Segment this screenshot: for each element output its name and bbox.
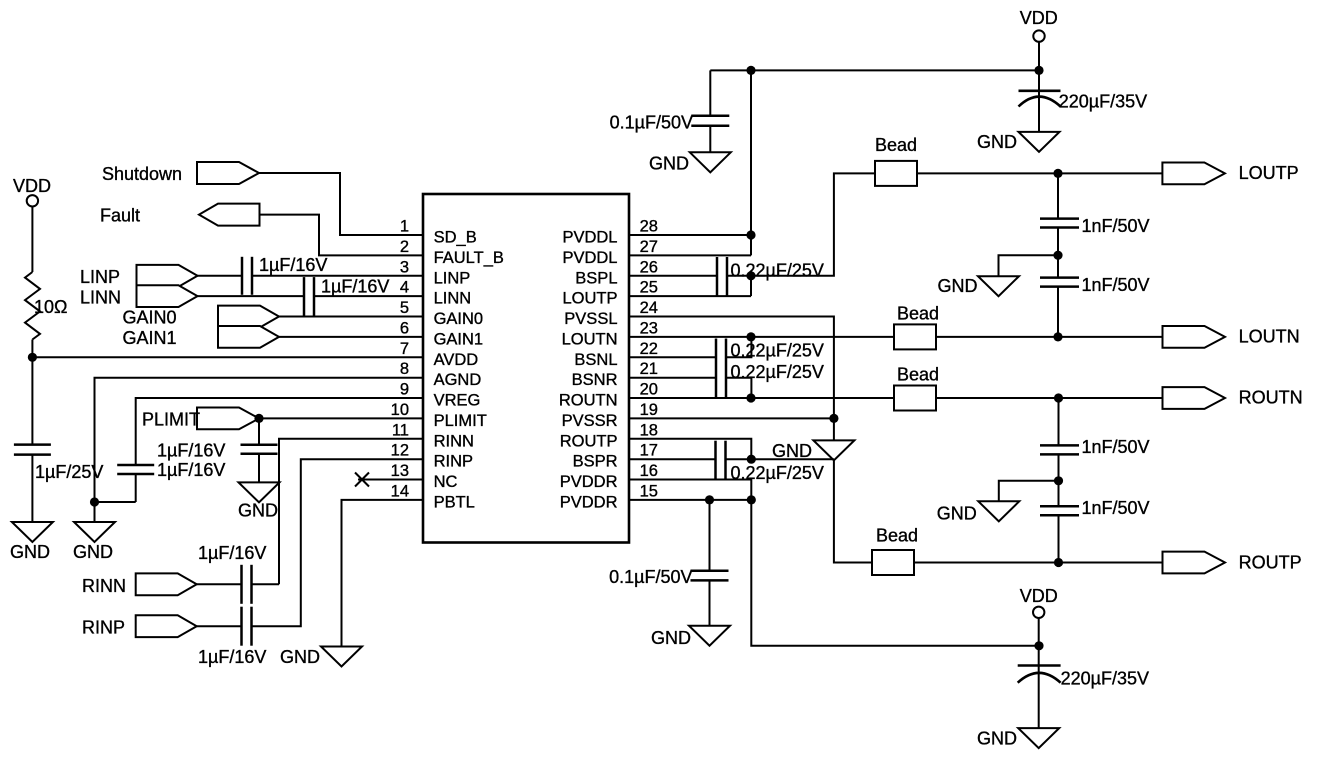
wire pin15 node to C17 bbox=[709, 500, 711, 571]
wire PLIMIT node to C5 bbox=[258, 418, 260, 444]
svg-text:19: 19 bbox=[640, 401, 658, 419]
wire FB3 to ROUTN connector bbox=[936, 397, 1163, 399]
junction PLIMIT node bbox=[254, 414, 263, 423]
svg-text:ROUTN: ROUTN bbox=[559, 392, 618, 410]
wire pin 22 BSNL to C11 bbox=[629, 356, 716, 358]
wire pin 25 LOUTP bbox=[629, 295, 751, 297]
ground below C18 bbox=[1018, 728, 1059, 748]
svg-text:GND: GND bbox=[280, 647, 320, 667]
capacitor C1 1uF/25V bbox=[14, 445, 51, 455]
svg-text:1nF/50V: 1nF/50V bbox=[1082, 498, 1150, 518]
svg-text:1µF/16V: 1µF/16V bbox=[198, 647, 266, 667]
junction ROUTN / C16 bbox=[1054, 393, 1063, 402]
wire top VDD rail bbox=[710, 69, 1039, 71]
connector LINN input bbox=[137, 285, 198, 307]
ground below C1 bbox=[12, 522, 53, 542]
wire PVSS node to ground bbox=[833, 418, 835, 440]
wire C1 to ground bbox=[31, 455, 33, 522]
connector RINP input bbox=[136, 615, 197, 637]
svg-text:PVSSL: PVSSL bbox=[564, 310, 617, 328]
ground PVSS bbox=[813, 440, 854, 460]
svg-text:27: 27 bbox=[640, 238, 658, 256]
svg-text:ROUTP: ROUTP bbox=[1239, 553, 1302, 573]
junction LOUTN / BSNL bbox=[746, 332, 755, 341]
wire pin 12 RINP bbox=[252, 459, 424, 626]
wire C17 to ground bbox=[709, 580, 711, 625]
capacitor C8 0.1uF/50V bbox=[691, 116, 729, 126]
junction top rail / VDD bbox=[1034, 66, 1043, 75]
svg-text:GAIN0: GAIN0 bbox=[434, 310, 484, 328]
svg-text:LINN: LINN bbox=[434, 290, 472, 308]
wire C5 to ground bbox=[258, 454, 260, 483]
svg-text:FAULT_B: FAULT_B bbox=[434, 249, 504, 267]
wire pin 9 VREG to C4 bbox=[136, 398, 423, 465]
connector RINN input bbox=[136, 573, 197, 595]
svg-text:1µF/16V: 1µF/16V bbox=[321, 277, 389, 297]
capacitor C3 1uF/16V bbox=[304, 277, 314, 316]
wire pin 23 LOUTN to FB2 bbox=[629, 336, 894, 338]
wire C4 to AGND node bbox=[135, 474, 137, 502]
wire C16 to R mid node bbox=[1058, 454, 1060, 480]
svg-text:GND: GND bbox=[10, 542, 50, 562]
wire LINN to C3 bbox=[198, 295, 305, 297]
wire FB2 to LOUTN connector bbox=[936, 336, 1163, 338]
svg-text:LINP: LINP bbox=[80, 267, 120, 287]
ferrite bead FB3 bbox=[894, 386, 936, 411]
ground L mid bbox=[978, 276, 1019, 296]
wire AVDD node to pin 7 bbox=[32, 356, 423, 358]
svg-text:1nF/50V: 1nF/50V bbox=[1082, 275, 1150, 295]
capacitor C13 0.22uF/25V bbox=[716, 441, 726, 480]
svg-text:BSNR: BSNR bbox=[572, 371, 618, 389]
wire pin 11 RINN bbox=[279, 439, 423, 585]
wire C6 to RINN vertical bbox=[252, 583, 280, 585]
svg-text:LINN: LINN bbox=[80, 288, 121, 308]
ground below C8 bbox=[690, 152, 731, 172]
wire pin 24 PVSSL to ground node bbox=[629, 317, 834, 419]
svg-text:LOUTP: LOUTP bbox=[562, 290, 617, 308]
junction ROUTN / BSNR bbox=[746, 393, 755, 402]
wire C15 to LOUTN line bbox=[1057, 287, 1059, 337]
svg-text:AVDD: AVDD bbox=[434, 351, 479, 369]
svg-text:PVSSR: PVSSR bbox=[562, 412, 618, 430]
svg-text:15: 15 bbox=[640, 482, 658, 500]
junction PVSS ground node bbox=[829, 414, 838, 423]
ground below AGND bbox=[74, 522, 115, 542]
junction pin 28 bbox=[746, 230, 755, 239]
connector GAIN0 input bbox=[218, 306, 279, 328]
svg-text:PVDDR: PVDDR bbox=[560, 473, 618, 491]
svg-text:20: 20 bbox=[640, 381, 658, 399]
capacitor C15 1nF/50V bbox=[1040, 278, 1079, 287]
svg-text:GND: GND bbox=[937, 504, 977, 524]
ferrite bead FB4 bbox=[872, 550, 914, 575]
wire GAIN0 to pin 5 bbox=[279, 316, 423, 318]
connector GAIN1 input bbox=[218, 326, 279, 348]
junction top rail / pin28 branch bbox=[746, 66, 755, 75]
svg-text:PLIMIT: PLIMIT bbox=[142, 410, 200, 430]
svg-text:Bead: Bead bbox=[897, 365, 939, 385]
node VDD (top-right) bbox=[1033, 30, 1044, 41]
wire pin 20 ROUTN to FB3 bbox=[629, 397, 894, 399]
wire BSPL node to LOUTP output line bbox=[751, 173, 875, 275]
connector LINP input bbox=[137, 265, 198, 287]
svg-text:PVDDR: PVDDR bbox=[560, 493, 618, 511]
capacitor C18 220uF/35V polarized bbox=[1018, 666, 1061, 683]
svg-text:8: 8 bbox=[400, 360, 409, 378]
wire Fault to pin 2 bbox=[260, 215, 424, 256]
wire C14 to mid node bbox=[1057, 228, 1059, 256]
junction AGND node bbox=[90, 497, 99, 506]
connector ROUTP output bbox=[1163, 552, 1226, 574]
wire top rail to C8 bbox=[709, 70, 711, 115]
wire L mid node to ground bbox=[999, 255, 1059, 276]
wire C3 to pin 4 bbox=[314, 295, 423, 297]
wire RINP to C7 bbox=[197, 625, 242, 627]
svg-text:3: 3 bbox=[400, 258, 409, 276]
capacitor C6 1uF/16V bbox=[242, 565, 252, 604]
wire LOUTP to C14 bbox=[1057, 173, 1059, 218]
svg-text:28: 28 bbox=[640, 218, 658, 236]
svg-text:24: 24 bbox=[640, 299, 658, 317]
connector Shutdown input bbox=[197, 162, 259, 184]
svg-text:GND: GND bbox=[73, 542, 113, 562]
svg-text:220µF/35V: 220µF/35V bbox=[1059, 92, 1147, 112]
svg-text:1: 1 bbox=[400, 218, 409, 236]
wire resistor to C1 bbox=[31, 340, 33, 445]
svg-text:RINP: RINP bbox=[82, 618, 125, 638]
svg-text:GND: GND bbox=[238, 501, 278, 521]
svg-text:1nF/50V: 1nF/50V bbox=[1082, 216, 1150, 236]
svg-text:12: 12 bbox=[391, 442, 409, 460]
capacitor C19 1nF/50V bbox=[1040, 506, 1079, 515]
capacitor C2 1uF/16V bbox=[242, 257, 252, 295]
svg-text:Fault: Fault bbox=[100, 206, 140, 226]
wire VDD to C18 bbox=[1038, 618, 1040, 728]
wire C8 to ground bbox=[709, 126, 711, 153]
svg-text:23: 23 bbox=[640, 319, 658, 337]
svg-text:2: 2 bbox=[400, 238, 409, 256]
wire pin 17 BSPR to C13 bbox=[629, 458, 716, 460]
ground R mid bbox=[978, 501, 1019, 521]
svg-text:VDD: VDD bbox=[13, 176, 51, 196]
wire pin 21 BSNR to C12 bbox=[629, 377, 716, 379]
svg-text:BSNL: BSNL bbox=[574, 351, 617, 369]
junction BSPL node bbox=[746, 271, 755, 280]
junction LOUTP / C14 bbox=[1053, 169, 1062, 178]
svg-text:GND: GND bbox=[651, 628, 691, 648]
capacitor C4 1uF/16V bbox=[117, 465, 154, 474]
wire C2 to pin 3 bbox=[252, 275, 423, 277]
wire pin 19 PVSSR to ground node bbox=[629, 417, 834, 419]
svg-text:13: 13 bbox=[391, 462, 409, 480]
svg-text:6: 6 bbox=[400, 319, 409, 337]
capacitor C16 1nF/50V bbox=[1040, 445, 1079, 454]
svg-text:Bead: Bead bbox=[875, 135, 917, 155]
IC U1 body bbox=[423, 194, 629, 543]
ferrite bead FB2 bbox=[894, 324, 936, 349]
wire ROUTN to C16 bbox=[1058, 398, 1060, 445]
wire R mid node to C19 bbox=[1058, 481, 1060, 506]
wire AGND node to C4 bbox=[95, 501, 136, 503]
svg-text:5: 5 bbox=[400, 299, 409, 317]
svg-text:PVDDL: PVDDL bbox=[562, 249, 617, 267]
junction ROUTP / C19 bbox=[1054, 558, 1063, 567]
svg-text:LOUTP: LOUTP bbox=[1239, 163, 1299, 183]
wire pin 14 PBTL to ground bbox=[342, 500, 424, 647]
svg-text:VREG: VREG bbox=[434, 392, 481, 410]
wire C19 to ROUTP line bbox=[1058, 515, 1060, 562]
wire RINN to C6 bbox=[197, 583, 242, 585]
capacitor C17 0.1uF/50V bbox=[691, 571, 729, 581]
svg-text:RINP: RINP bbox=[434, 453, 473, 471]
no-connect X on pin 13 bbox=[355, 473, 369, 487]
wire AGND node to ground bbox=[94, 502, 96, 522]
junction bottom VDD rail bbox=[1034, 641, 1043, 650]
capacitor C5 1uF/16V bbox=[241, 445, 278, 454]
svg-text:RINN: RINN bbox=[82, 576, 126, 596]
capacitor C7 1uF/16V bbox=[242, 607, 252, 646]
junction pin 15 / C17 bbox=[705, 495, 714, 504]
ferrite bead FB1 bbox=[875, 161, 917, 186]
svg-text:1µF/16V: 1µF/16V bbox=[157, 441, 225, 461]
wire FB4 to ROUTP connector bbox=[914, 562, 1163, 564]
svg-text:1µF/16V: 1µF/16V bbox=[198, 543, 266, 563]
ground below C5 bbox=[239, 482, 280, 502]
wire FB1 to LOUTP connector bbox=[917, 172, 1162, 174]
svg-text:220µF/35V: 220µF/35V bbox=[1061, 669, 1149, 689]
wire VDD branch to pins 28/27 bbox=[750, 70, 752, 255]
wire L mid node to C15 bbox=[1057, 255, 1059, 277]
svg-text:1µF/16V: 1µF/16V bbox=[157, 460, 225, 480]
junction BSPR node bbox=[747, 455, 756, 464]
svg-text:BSPL: BSPL bbox=[575, 269, 617, 287]
svg-text:11: 11 bbox=[392, 421, 409, 439]
svg-text:0.1µF/50V: 0.1µF/50V bbox=[609, 567, 692, 587]
svg-text:GND: GND bbox=[938, 276, 978, 296]
svg-text:4: 4 bbox=[400, 279, 409, 297]
svg-text:14: 14 bbox=[391, 482, 409, 500]
wire PLIMIT to pin 10 bbox=[259, 417, 423, 419]
junction L mid node bbox=[1053, 251, 1062, 260]
svg-text:0.22µF/25V: 0.22µF/25V bbox=[731, 362, 824, 382]
wire pin 13 NC stub bbox=[358, 479, 423, 481]
svg-text:0.22µF/25V: 0.22µF/25V bbox=[731, 261, 824, 281]
wire pin15 to bottom VDD rail bbox=[751, 500, 1039, 646]
connector ROUTN output bbox=[1163, 387, 1226, 409]
wire BSPL node to pin 25 LOUTP bbox=[750, 276, 752, 296]
svg-text:GAIN1: GAIN1 bbox=[434, 330, 484, 348]
svg-text:LINP: LINP bbox=[434, 269, 471, 287]
wire VDD to resistor bbox=[31, 207, 33, 273]
wire C11 to LOUTN junction bbox=[726, 337, 751, 357]
node VDD (bottom-right) bbox=[1033, 607, 1044, 618]
svg-text:VDD: VDD bbox=[1020, 586, 1058, 606]
svg-text:GND: GND bbox=[977, 132, 1017, 152]
svg-text:ROUTP: ROUTP bbox=[560, 432, 618, 450]
svg-text:21: 21 bbox=[640, 360, 658, 378]
wire GAIN1 to pin 6 bbox=[279, 336, 423, 338]
svg-text:16: 16 bbox=[640, 462, 658, 480]
svg-text:PLIMIT: PLIMIT bbox=[434, 412, 487, 430]
svg-text:1µF/25V: 1µF/25V bbox=[35, 462, 103, 482]
capacitor C14 1nF/50V bbox=[1040, 219, 1079, 228]
wire LINP to C2 bbox=[198, 275, 243, 277]
wire R mid node to ground bbox=[999, 481, 1059, 502]
svg-text:17: 17 bbox=[640, 442, 658, 460]
wire pin 18 ROUTP to BSPR node bbox=[629, 439, 751, 459]
connector PLIMIT input bbox=[197, 408, 259, 430]
resistor R1 10ohm bbox=[25, 272, 40, 340]
svg-text:18: 18 bbox=[640, 421, 658, 439]
svg-text:LOUTN: LOUTN bbox=[1239, 327, 1300, 347]
wire Shutdown to pin 1 bbox=[259, 173, 423, 235]
svg-text:7: 7 bbox=[400, 340, 409, 358]
svg-text:PBTL: PBTL bbox=[434, 493, 475, 511]
wire C12 to ROUTN junction bbox=[726, 378, 751, 398]
ground below PBTL bbox=[321, 647, 362, 667]
svg-text:25: 25 bbox=[640, 279, 658, 297]
connector LOUTP output bbox=[1162, 163, 1225, 185]
svg-text:VDD: VDD bbox=[1020, 8, 1058, 28]
junction LOUTN / C15 bbox=[1053, 332, 1062, 341]
junction pin 15 / VDD rail bbox=[747, 495, 756, 504]
wire pin 8 AGND bbox=[95, 378, 424, 502]
svg-text:22: 22 bbox=[640, 340, 658, 358]
svg-text:1µF/16V: 1µF/16V bbox=[259, 255, 327, 275]
capacitor C10 0.22uF/25V bbox=[717, 257, 727, 296]
svg-text:GAIN0: GAIN0 bbox=[123, 308, 177, 328]
svg-text:GAIN1: GAIN1 bbox=[123, 328, 177, 348]
svg-text:LOUTN: LOUTN bbox=[562, 330, 618, 348]
svg-text:Shutdown: Shutdown bbox=[102, 164, 182, 184]
wire pin 15 PVDDR bbox=[629, 499, 751, 501]
wire C13 to ROUTP line bbox=[726, 458, 834, 460]
ground below C9 bbox=[1019, 132, 1060, 152]
svg-text:0.1µF/50V: 0.1µF/50V bbox=[610, 113, 693, 133]
svg-text:GND: GND bbox=[649, 154, 689, 174]
svg-text:SD_B: SD_B bbox=[434, 229, 477, 247]
svg-text:1nF/50V: 1nF/50V bbox=[1082, 437, 1150, 457]
svg-text:10: 10 bbox=[391, 401, 409, 419]
svg-text:10Ω: 10Ω bbox=[34, 297, 67, 317]
wire pin 16 PVDDR bbox=[629, 480, 751, 500]
svg-text:Bead: Bead bbox=[876, 526, 918, 546]
svg-text:BSPR: BSPR bbox=[573, 453, 618, 471]
svg-text:NC: NC bbox=[434, 473, 458, 491]
ground below C17 bbox=[689, 626, 730, 646]
wire VDD to C9 bbox=[1038, 42, 1040, 132]
wire BSPR route to FB4 bbox=[834, 459, 872, 562]
node VDD (top-left) bbox=[27, 195, 38, 206]
svg-text:GND: GND bbox=[772, 441, 812, 461]
connector Fault output bbox=[199, 204, 260, 226]
svg-text:GND: GND bbox=[977, 729, 1017, 749]
junction AVDD node bbox=[28, 353, 37, 362]
connector LOUTN output bbox=[1163, 326, 1226, 348]
svg-text:9: 9 bbox=[400, 381, 409, 399]
capacitor C9 220uF/35V polarized bbox=[1019, 91, 1061, 107]
wire pin 26 BSPL to C10 bbox=[629, 275, 717, 277]
svg-text:ROUTN: ROUTN bbox=[1239, 388, 1303, 408]
capacitor C11 0.22uF/25V (shared plates with C12) bbox=[716, 339, 726, 399]
svg-text:PVDDL: PVDDL bbox=[562, 229, 617, 247]
wire pin 28 PVDDL bbox=[629, 234, 751, 236]
wire C10 to BSPL node bbox=[727, 275, 751, 277]
wire pin 27 PVDDL bbox=[629, 254, 751, 256]
junction R mid node bbox=[1054, 476, 1063, 485]
svg-text:AGND: AGND bbox=[434, 371, 482, 389]
svg-text:26: 26 bbox=[640, 258, 658, 276]
svg-text:Bead: Bead bbox=[897, 304, 939, 324]
svg-text:RINN: RINN bbox=[434, 432, 474, 450]
